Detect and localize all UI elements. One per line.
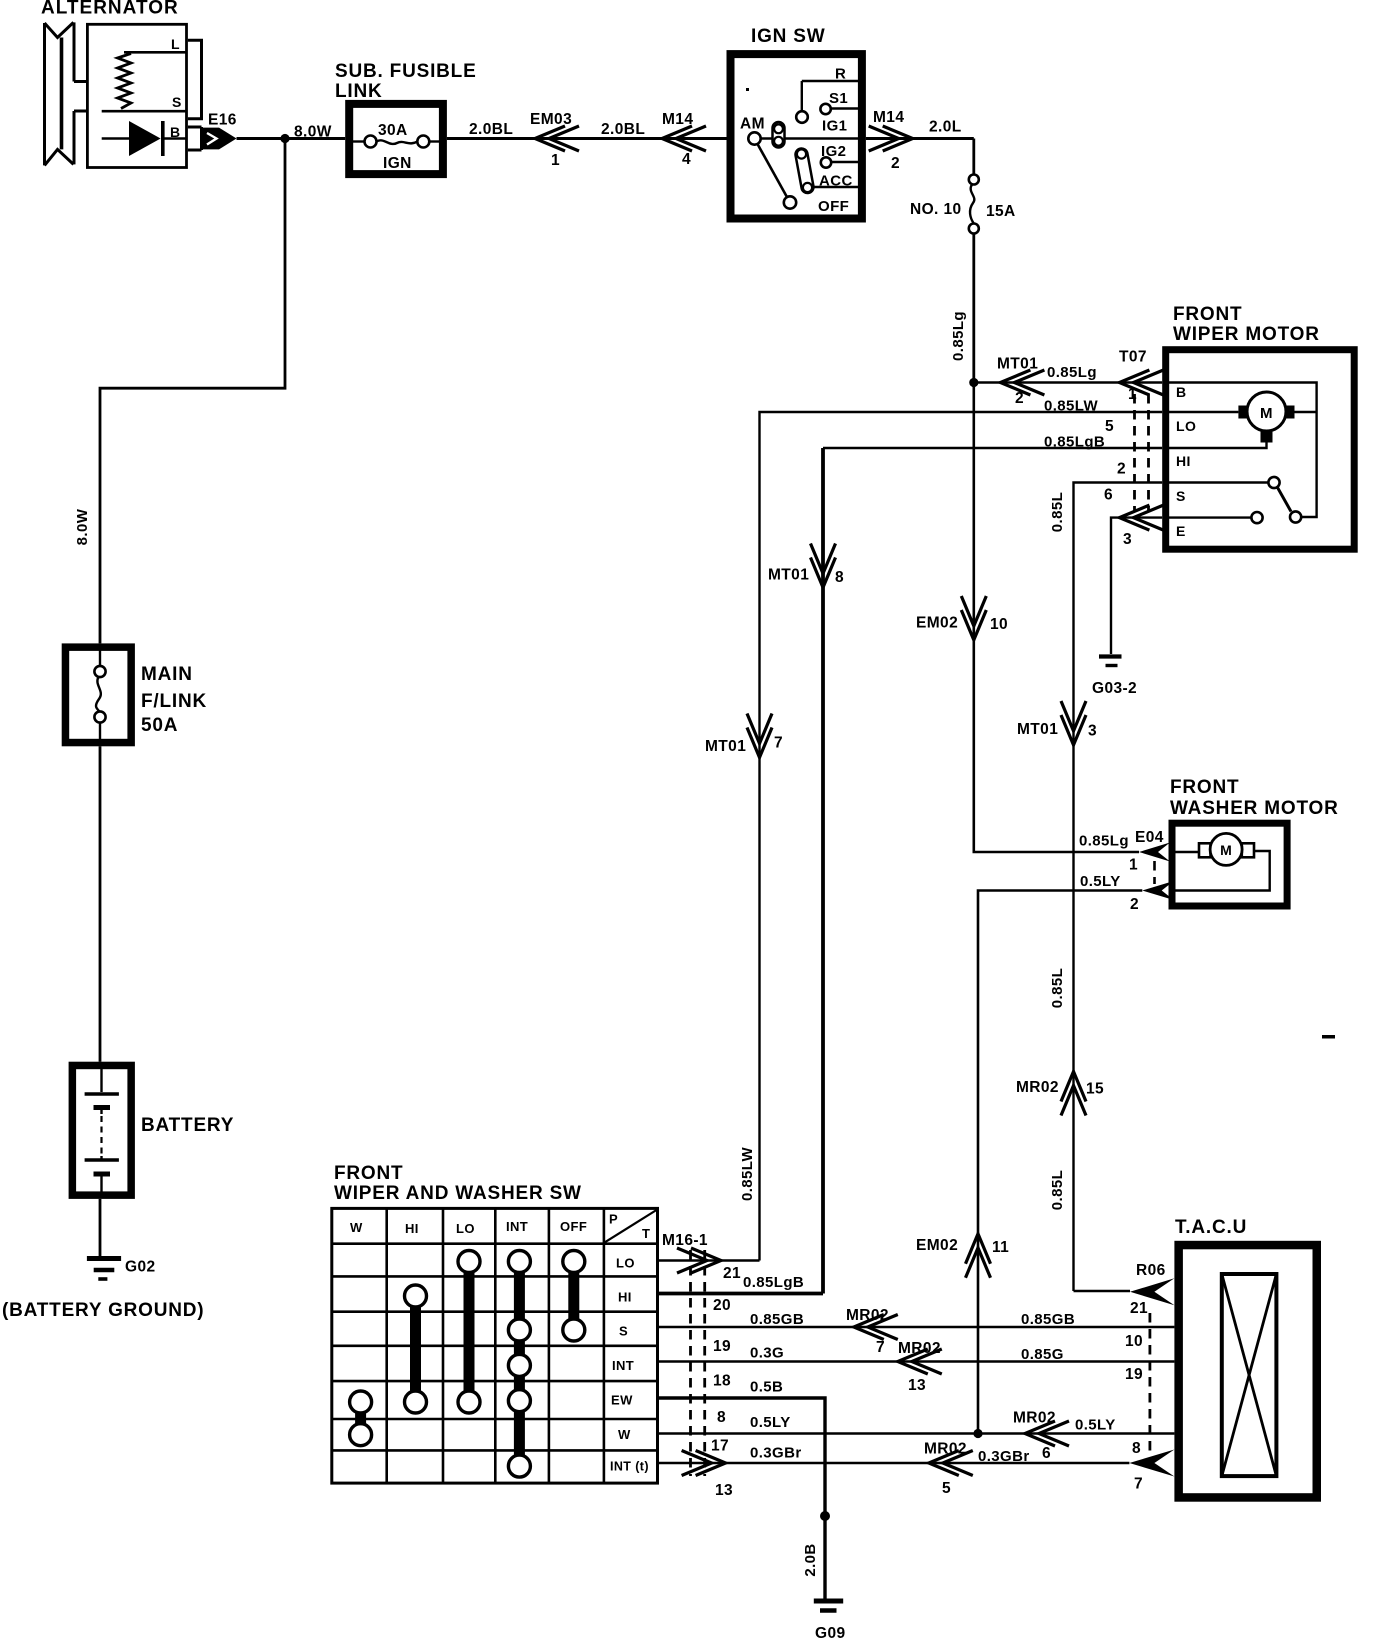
svg-text:FRONT: FRONT <box>1173 304 1242 325</box>
svg-text:IG1: IG1 <box>822 118 847 135</box>
connector MT01 pin 2 <box>1000 370 1044 395</box>
svg-text:E: E <box>1176 523 1186 539</box>
svg-text:7: 7 <box>876 1339 885 1356</box>
connector M14 pin 4 <box>662 126 706 151</box>
svg-text:HI: HI <box>1176 453 1191 469</box>
svg-text:WASHER MOTOR: WASHER MOTOR <box>1170 798 1339 819</box>
wiper motor internal E wire <box>1169 516 1251 518</box>
switch contact bars <box>355 1402 366 1435</box>
svg-text:M14: M14 <box>662 111 693 128</box>
node junction at alternator output <box>280 134 289 143</box>
svg-text:0.85Lg: 0.85Lg <box>1047 364 1097 381</box>
svg-text:21: 21 <box>1130 1300 1148 1317</box>
svg-text:S: S <box>1176 488 1186 504</box>
svg-text:SUB. FUSIBLE: SUB. FUSIBLE <box>335 61 477 82</box>
wire S row 0.85GB pin 19 to TACU 10 <box>658 1326 1175 1328</box>
connector T07 pin 1 <box>1119 370 1163 395</box>
fuse NO.10 15A <box>969 175 979 185</box>
alternator field coil <box>118 54 132 109</box>
svg-text:7: 7 <box>774 735 783 752</box>
node junction on 0.5B <box>820 1511 830 1521</box>
svg-text:FRONT: FRONT <box>1170 777 1239 798</box>
svg-text:0.85Lg: 0.85Lg <box>1079 833 1129 850</box>
IGN SW terminal ACC <box>813 186 859 188</box>
svg-text:W: W <box>350 1220 363 1235</box>
svg-text:2.0B: 2.0B <box>802 1543 819 1576</box>
connector M16-1 pin 13 <box>682 1451 726 1476</box>
svg-text:13: 13 <box>715 1482 733 1499</box>
wire wiper motor E to ground <box>1111 518 1162 654</box>
svg-text:MT01: MT01 <box>768 567 809 584</box>
TACU internal block <box>1222 1274 1277 1476</box>
svg-text:0.85L: 0.85L <box>1049 968 1066 1008</box>
svg-text:W: W <box>618 1427 631 1442</box>
svg-text:15A: 15A <box>986 203 1016 220</box>
svg-text:0.85L: 0.85L <box>1049 1170 1066 1210</box>
svg-text:E04: E04 <box>1135 829 1164 846</box>
svg-text:0.85GB: 0.85GB <box>1021 1311 1075 1328</box>
wiper motor internal HI wire <box>1169 441 1267 448</box>
svg-text:IGN: IGN <box>383 155 412 172</box>
svg-text:WIPER AND WASHER SW: WIPER AND WASHER SW <box>334 1183 582 1204</box>
connector E04 dashed boundary <box>1153 861 1156 884</box>
wire EW row 0.5B to ground G09 <box>658 1398 826 1599</box>
svg-text:2.0BL: 2.0BL <box>601 121 645 138</box>
svg-text:0.5LY: 0.5LY <box>750 1414 791 1431</box>
wire alternator B to junction <box>237 137 288 140</box>
washer motor M <box>1175 851 1200 853</box>
wire IGN SW to fuse NO.10 <box>866 137 974 140</box>
svg-text:LO: LO <box>456 1221 475 1236</box>
svg-text:0.5LY: 0.5LY <box>1075 1417 1116 1434</box>
svg-text:HI: HI <box>618 1290 632 1305</box>
svg-text:AM: AM <box>740 116 765 133</box>
TACU box <box>1179 1245 1317 1497</box>
svg-text:0.85L: 0.85L <box>1049 492 1066 532</box>
svg-text:M14: M14 <box>873 109 904 126</box>
connector MR02 pin 6 <box>1025 1421 1069 1446</box>
connector MT01 pin 7 <box>747 714 772 758</box>
svg-text:WIPER MOTOR: WIPER MOTOR <box>1173 324 1320 345</box>
svg-text:MAIN: MAIN <box>141 664 193 685</box>
svg-text:0.85G: 0.85G <box>1021 1346 1064 1363</box>
wire EM02 to washer motor 1 <box>974 383 1139 853</box>
IGN SW terminal S1 <box>820 104 830 114</box>
svg-text:INT (t): INT (t) <box>610 1460 649 1474</box>
svg-text:1: 1 <box>1129 857 1138 874</box>
wire INT(t) row 0.3GBr to TACU 7 <box>658 1462 1130 1464</box>
svg-text:LO: LO <box>616 1256 635 1271</box>
IGN SW box <box>731 54 862 218</box>
battery cells <box>100 1066 102 1092</box>
svg-text:19: 19 <box>1125 1366 1143 1383</box>
svg-text:0.3G: 0.3G <box>750 1345 784 1362</box>
front washer motor box <box>1172 823 1287 906</box>
connector T07 pin 3 <box>1119 505 1163 530</box>
svg-text:2: 2 <box>1015 390 1024 407</box>
alternator terminal S <box>102 110 187 113</box>
wire battery to ground <box>99 1199 102 1256</box>
svg-text:0.3GBr: 0.3GBr <box>750 1445 802 1462</box>
svg-text:20: 20 <box>713 1297 731 1314</box>
connector MR02 pin 15 <box>1061 1072 1086 1116</box>
connector R06 pin 21 <box>1130 1278 1174 1305</box>
wire 0.85LW wiper motor LO <box>760 412 1163 1261</box>
connector M14 pin 2 <box>869 126 913 151</box>
svg-text:6: 6 <box>1042 1445 1051 1462</box>
svg-text:0.85LgB: 0.85LgB <box>1044 434 1105 451</box>
svg-text:21: 21 <box>723 1265 741 1282</box>
svg-text:10: 10 <box>1125 1333 1143 1350</box>
wire INT row 0.3G pin 18 to TACU 19 <box>658 1360 1175 1362</box>
svg-text:8.0W: 8.0W <box>74 508 91 545</box>
connector R06 dashed boundary <box>1149 1313 1152 1452</box>
node junction 0.5LY <box>973 1429 982 1438</box>
svg-text:30A: 30A <box>378 122 408 139</box>
alternator L-S external bracket <box>188 40 202 119</box>
wire 0.85Lg junction to wiper motor B <box>974 381 1162 383</box>
svg-text:13: 13 <box>908 1377 926 1394</box>
svg-text:1: 1 <box>551 152 560 169</box>
svg-text:(BATTERY GROUND): (BATTERY GROUND) <box>2 1300 204 1321</box>
svg-text:FRONT: FRONT <box>334 1163 403 1184</box>
ground G02 <box>87 1256 121 1261</box>
svg-text:IG2: IG2 <box>821 143 846 160</box>
svg-text:ACC: ACC <box>819 173 853 190</box>
connector MR02 pin 13 <box>898 1349 942 1374</box>
connector R06 pin 7 <box>1129 1450 1174 1477</box>
connector E16 <box>188 126 202 129</box>
svg-text:M16-1: M16-1 <box>662 1232 708 1249</box>
svg-text:7: 7 <box>1134 1476 1143 1493</box>
IGN SW contact capsule 2 <box>802 155 808 188</box>
main fusible link box <box>65 647 131 742</box>
svg-text:2: 2 <box>891 155 900 172</box>
wire fuse to junction, 0.85Lg <box>972 234 975 383</box>
IGN SW terminal R <box>802 80 858 82</box>
connector E04 pin 1 <box>1139 843 1170 862</box>
svg-text:0.85LW: 0.85LW <box>739 1147 756 1202</box>
svg-text:B: B <box>1176 384 1187 400</box>
svg-text:EW: EW <box>611 1393 633 1408</box>
svg-text:M: M <box>1260 405 1273 422</box>
main fusible link fuse symbol <box>99 647 101 666</box>
svg-text:2: 2 <box>1117 461 1126 478</box>
svg-text:INT: INT <box>612 1358 634 1373</box>
svg-text:IGN SW: IGN SW <box>751 26 825 47</box>
wire junction to fusible link <box>285 137 345 140</box>
alternator terminal L <box>124 51 187 54</box>
ground G09 <box>814 1599 843 1604</box>
svg-text:S: S <box>619 1324 628 1339</box>
alternator body box <box>87 24 186 167</box>
connector MR02 pin 7 <box>854 1315 898 1340</box>
svg-text:0.5B: 0.5B <box>750 1379 783 1396</box>
wire junction down to main fusible link <box>100 139 285 644</box>
wire LO row to M16-1 pin 21 <box>658 1259 760 1261</box>
svg-text:5: 5 <box>942 1480 951 1497</box>
wire fusible link to IGN SW <box>447 137 727 140</box>
svg-text:6: 6 <box>1104 487 1113 504</box>
svg-text:MR02: MR02 <box>1016 1079 1059 1096</box>
svg-text:T07: T07 <box>1119 349 1147 366</box>
wire main fusible link to battery <box>99 746 102 1061</box>
svg-text:MR02: MR02 <box>846 1307 889 1324</box>
svg-text:5: 5 <box>1105 418 1114 435</box>
svg-text:MT01: MT01 <box>997 356 1038 373</box>
svg-text:2.0L: 2.0L <box>929 119 962 136</box>
front wiper motor box <box>1166 350 1355 550</box>
svg-text:0.3GBr: 0.3GBr <box>978 1448 1030 1465</box>
wire W row 0.5LY to TACU 8 <box>658 1432 1175 1434</box>
svg-text:MR02: MR02 <box>924 1441 967 1458</box>
svg-text:R06: R06 <box>1136 1262 1166 1279</box>
svg-text:11: 11 <box>992 1239 1009 1256</box>
svg-text:G03-2: G03-2 <box>1092 680 1137 697</box>
svg-text:2: 2 <box>1130 896 1139 913</box>
svg-text:T: T <box>642 1226 650 1241</box>
svg-text:15: 15 <box>1086 1081 1104 1098</box>
svg-text:B: B <box>170 124 181 140</box>
node junction below fuse <box>969 378 978 387</box>
svg-text:M: M <box>1220 842 1232 858</box>
svg-text:2.0BL: 2.0BL <box>469 121 513 138</box>
svg-text:0.85GB: 0.85GB <box>750 1311 804 1328</box>
svg-text:BATTERY: BATTERY <box>141 1115 234 1136</box>
svg-text:EM03: EM03 <box>530 111 572 128</box>
wire 0.85L wiper motor S <box>1074 483 1163 1292</box>
svg-text:MR02: MR02 <box>1013 1410 1056 1427</box>
connector M16-1 dashed boundary <box>689 1250 692 1476</box>
alternator pulley <box>45 22 88 165</box>
wire HI row 0.85LgB pin 20 <box>658 1292 824 1296</box>
svg-text:F/LINK: F/LINK <box>141 691 207 712</box>
svg-text:8: 8 <box>1132 1440 1141 1457</box>
connector EM02 pin 11 <box>966 1234 991 1278</box>
svg-text:OFF: OFF <box>818 198 849 215</box>
IGN SW terminal IG2 <box>821 157 831 167</box>
svg-text:T.A.C.U: T.A.C.U <box>1175 1217 1247 1238</box>
svg-text:OFF: OFF <box>560 1219 587 1234</box>
sub fusible link box <box>349 104 443 174</box>
speck <box>1322 1035 1335 1039</box>
wiper motor M <box>1169 411 1238 413</box>
svg-text:0.85Lg: 0.85Lg <box>950 311 967 361</box>
ground G03-2 <box>1099 654 1122 658</box>
switch table grid <box>332 1208 658 1483</box>
connector EM03 pin 1 <box>535 126 579 151</box>
IGN SW contact capsule 1 <box>771 128 786 142</box>
wire 0.85L to TACU 21 <box>1074 1290 1131 1293</box>
svg-text:LO: LO <box>1176 418 1196 434</box>
svg-text:19: 19 <box>713 1338 731 1355</box>
svg-text:ALTERNATOR: ALTERNATOR <box>41 0 179 19</box>
svg-text:17: 17 <box>711 1438 729 1455</box>
svg-text:10: 10 <box>990 616 1008 633</box>
svg-text:L: L <box>171 36 180 52</box>
svg-text:8: 8 <box>717 1409 726 1426</box>
svg-text:G02: G02 <box>125 1259 156 1276</box>
connector MR02 pin 5 <box>929 1451 973 1476</box>
svg-text:P: P <box>609 1212 618 1227</box>
svg-text:18: 18 <box>713 1373 731 1390</box>
svg-text:G09: G09 <box>815 1625 846 1640</box>
svg-text:50A: 50A <box>141 715 178 736</box>
connector T07 dashed boundary <box>1133 394 1136 512</box>
svg-text:4: 4 <box>682 151 691 168</box>
svg-text:MR02: MR02 <box>898 1340 941 1357</box>
alternator diode <box>102 137 131 140</box>
svg-text:EM02: EM02 <box>916 1237 958 1254</box>
svg-text:0.5LY: 0.5LY <box>1080 873 1121 890</box>
svg-text:NO. 10: NO. 10 <box>910 201 962 218</box>
wire 0.5LY washer motor 2 down <box>978 891 1142 1434</box>
connector MT01 pin 3 <box>1061 701 1086 745</box>
svg-text:LINK: LINK <box>335 81 383 102</box>
svg-text:8: 8 <box>835 569 844 586</box>
svg-text:S: S <box>172 94 182 110</box>
svg-text:MT01: MT01 <box>705 738 746 755</box>
wire 0.85LgB wiper motor HI <box>823 447 1162 449</box>
svg-text:INT: INT <box>506 1219 528 1234</box>
svg-text:3: 3 <box>1088 723 1097 740</box>
svg-text:3: 3 <box>1123 531 1132 548</box>
svg-text:S1: S1 <box>829 90 848 107</box>
battery box <box>72 1065 131 1195</box>
svg-text:HI: HI <box>405 1221 419 1236</box>
connector MT01 pin 8 <box>811 544 836 588</box>
svg-text:EM02: EM02 <box>916 615 958 632</box>
wiper motor internal B wire <box>1169 383 1317 518</box>
svg-text:R: R <box>835 66 846 83</box>
svg-text:0.85LgB: 0.85LgB <box>743 1274 804 1291</box>
connector EM02 pin 10 <box>961 596 986 640</box>
switch contact circles <box>350 1391 372 1413</box>
svg-text:0.85LW: 0.85LW <box>1044 398 1099 415</box>
wiper motor park switch <box>1169 481 1268 483</box>
IGN SW AM circle and lever <box>748 132 760 144</box>
connector E04 pin 2 <box>1142 881 1173 900</box>
svg-text:MT01: MT01 <box>1017 721 1058 738</box>
svg-text:E16: E16 <box>208 112 237 129</box>
